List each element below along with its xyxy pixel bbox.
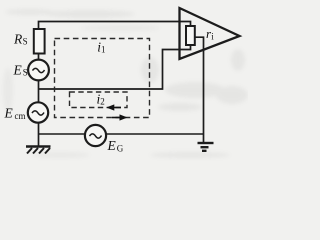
wire: top input wire from R_S top to r_i top — [39, 22, 191, 30]
svg-text:1: 1 — [101, 44, 106, 54]
wire: lower input wire, junction node to r_i bottom — [39, 45, 191, 89]
current loop i1 (dashed rectangle) — [55, 39, 150, 118]
resistor R_S — [34, 29, 45, 54]
svg-text:2: 2 — [100, 96, 105, 106]
source E_G (AC) — [85, 125, 106, 146]
svg-text:E: E — [13, 63, 23, 78]
svg-text:S: S — [23, 68, 28, 78]
source E_S (AC) — [28, 60, 49, 81]
wire: E_cm bottom to left ground — [38, 122, 40, 147]
wire: E_S bottom to E_cm top — [38, 80, 40, 103]
wire: R_S bottom to E_S top — [38, 54, 40, 61]
svg-text:R: R — [13, 32, 23, 47]
resistor r_i — [186, 26, 195, 45]
ground (left, chassis with hatching) — [26, 147, 51, 154]
svg-text:E: E — [4, 106, 14, 121]
current loop i2 (dashed rectangle) — [70, 92, 128, 108]
wire: r_i right tap down to right ground — [195, 37, 204, 143]
svg-text:G: G — [117, 143, 124, 153]
wire: bottom ground wire to right ground — [39, 133, 204, 135]
svg-text:E: E — [107, 138, 117, 153]
source E_cm (AC) — [28, 102, 48, 122]
svg-text:cm: cm — [15, 111, 26, 121]
arrow: i1 direction (right) on bottom edge — [112, 114, 128, 120]
paper background — [0, 0, 248, 161]
ground (right, earth) — [198, 143, 214, 151]
arrow: i2 direction (left) on bottom edge — [106, 104, 121, 110]
op-amp U1 (amplifier triangle) — [180, 8, 240, 59]
svg-text:S: S — [23, 36, 28, 46]
